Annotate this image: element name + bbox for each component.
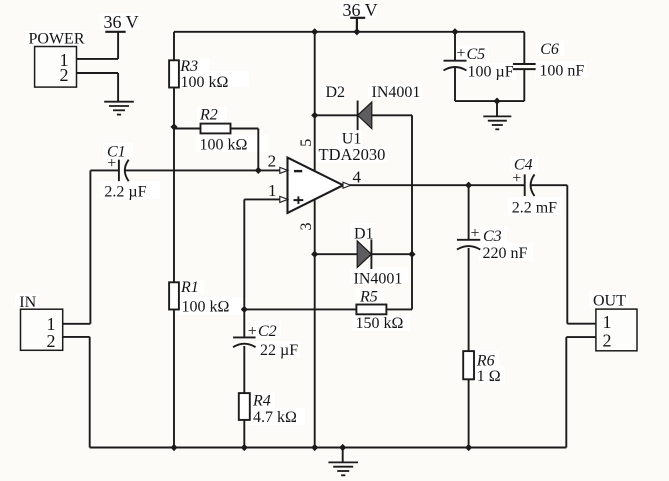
svg-text:OUT: OUT — [593, 293, 626, 310]
svg-text:+: + — [248, 323, 257, 340]
svg-text:TDA2030: TDA2030 — [319, 145, 386, 164]
svg-text:+: + — [512, 170, 521, 187]
svg-text:IN4001: IN4001 — [354, 271, 403, 288]
svg-text:IN: IN — [19, 294, 36, 311]
svg-text:36 V: 36 V — [343, 0, 378, 20]
svg-text:100 kΩ: 100 kΩ — [182, 299, 230, 316]
svg-text:IN4001: IN4001 — [372, 84, 421, 101]
svg-text:100 kΩ: 100 kΩ — [181, 74, 229, 91]
svg-text:100 µF: 100 µF — [468, 64, 514, 81]
svg-text:+: + — [107, 155, 116, 172]
svg-text:2.2 µF: 2.2 µF — [104, 184, 146, 201]
svg-text:36 V: 36 V — [104, 12, 139, 32]
svg-text:2: 2 — [268, 152, 277, 171]
svg-text:2: 2 — [603, 331, 612, 351]
svg-text:2.2 mF: 2.2 mF — [512, 200, 557, 217]
svg-text:R1: R1 — [180, 279, 199, 296]
svg-text:1 Ω: 1 Ω — [477, 368, 501, 385]
svg-text:2: 2 — [47, 331, 56, 351]
svg-text:22 µF: 22 µF — [260, 342, 298, 359]
svg-text:R2: R2 — [199, 107, 218, 124]
svg-text:220 nF: 220 nF — [483, 245, 528, 262]
svg-text:R3: R3 — [179, 58, 198, 75]
svg-text:C2: C2 — [258, 323, 277, 340]
svg-text:C5: C5 — [467, 46, 486, 63]
svg-text:R4: R4 — [252, 393, 271, 410]
svg-text:3: 3 — [298, 223, 315, 231]
svg-text:+: + — [471, 225, 480, 242]
svg-text:5: 5 — [298, 139, 315, 147]
svg-text:D2: D2 — [326, 84, 346, 101]
svg-text:4: 4 — [353, 168, 362, 187]
svg-text:4.7 kΩ: 4.7 kΩ — [253, 409, 297, 426]
svg-text:D1: D1 — [354, 226, 374, 243]
svg-text:1: 1 — [268, 181, 277, 200]
svg-text:POWER: POWER — [29, 31, 85, 48]
svg-text:+: + — [457, 45, 466, 62]
svg-text:2: 2 — [60, 65, 69, 85]
svg-text:R5: R5 — [359, 289, 378, 306]
svg-text:100 nF: 100 nF — [539, 63, 584, 80]
svg-text:R6: R6 — [476, 353, 495, 370]
svg-text:150 kΩ: 150 kΩ — [356, 315, 404, 332]
svg-text:1: 1 — [603, 312, 612, 332]
svg-text:C3: C3 — [483, 228, 502, 245]
svg-text:C6: C6 — [540, 41, 559, 58]
svg-text:100 kΩ: 100 kΩ — [200, 137, 248, 154]
